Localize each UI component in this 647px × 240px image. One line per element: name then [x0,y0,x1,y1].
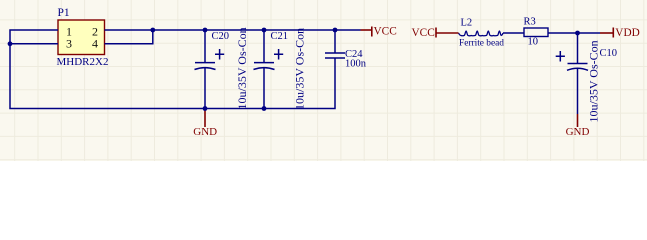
svg-text:C20: C20 [212,31,230,42]
wire C20 bottom [204,68,206,109]
wire R3 to VDD node [548,32,600,34]
wire C10 bottom [577,69,579,115]
svg-text:100n: 100n [345,59,367,70]
capacitor C10 [556,51,588,70]
svg-text:VCC: VCC [374,26,397,38]
power port GND (left) [204,109,206,128]
svg-text:C21: C21 [271,31,289,42]
capacitor C21 [254,49,284,70]
power port VDD [600,28,613,38]
junction node left (pins 1-3) [8,41,13,46]
junction node pin2/pin4 [150,28,155,33]
svg-text:10u/35V Os-Con: 10u/35V Os-Con [235,27,249,109]
junction node C21 bottom [262,106,267,111]
svg-text:10u/35V Os-Con: 10u/35V Os-Con [587,40,601,122]
svg-text:MHDR2X2: MHDR2X2 [57,56,109,68]
connector P1 body [58,20,105,55]
sheet background [0,0,647,161]
junction node C20 top [203,28,208,33]
svg-text:C10: C10 [600,48,618,59]
wire pin1 left, down, GND bottom rail, up to C24 bottom [10,30,335,109]
junction node C20 bottom / GND [203,106,208,111]
svg-text:4: 4 [92,36,98,50]
svg-text:3: 3 [66,36,72,50]
power port VCC (left) [361,27,372,37]
svg-text:Ferrite bead: Ferrite bead [459,38,505,48]
svg-text:VCC: VCC [412,27,435,39]
svg-text:VDD: VDD [615,27,639,39]
power port VCC (right) [436,28,459,38]
wire C21 bottom [263,68,265,109]
svg-text:10: 10 [528,36,539,47]
svg-text:GND: GND [566,126,590,138]
svg-text:10u/35V Os-Con: 10u/35V Os-Con [292,28,306,110]
wire L2 to R3 [503,32,524,34]
svg-text:L2: L2 [461,18,473,29]
junction node R3 / C10 / VDD [575,31,580,36]
inductor L2 Ferrite bead [459,31,504,36]
capacitor C20 [195,49,225,70]
wire C10 top [577,33,579,64]
svg-text:R3: R3 [524,16,536,27]
wire C21 top [263,30,265,63]
resistor R3 [524,28,548,37]
power port GND (right, C10) [577,114,579,127]
wire pin4 riser to rail [105,30,153,44]
junction node C24 top [333,28,338,33]
wire C24 top [334,30,336,53]
svg-text:P1: P1 [58,7,70,19]
wire pin3 to left vertical [10,43,58,45]
wire pin2 to VCC top rail [105,29,361,31]
svg-text:GND: GND [193,126,217,138]
junction node C21 top [262,28,267,33]
wire C20 top [204,30,206,63]
capacitor C24 [325,53,345,58]
